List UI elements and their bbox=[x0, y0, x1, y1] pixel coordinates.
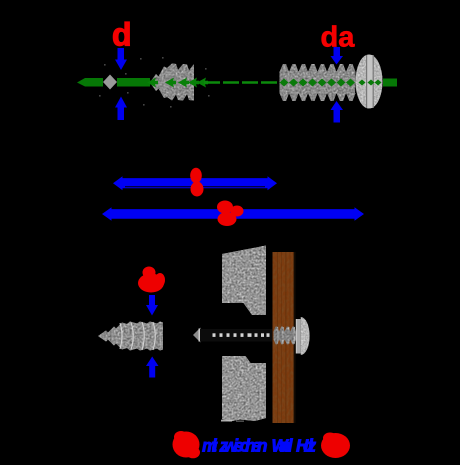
svg-text:Wand: Wand bbox=[272, 436, 294, 456]
svg-text:zwischen: zwischen bbox=[219, 436, 268, 456]
svg-text:mit: mit bbox=[202, 436, 218, 456]
svg-text:Holz: Holz bbox=[296, 436, 316, 456]
svg-text:d: d bbox=[112, 17, 132, 53]
svg-text:da: da bbox=[321, 22, 356, 54]
